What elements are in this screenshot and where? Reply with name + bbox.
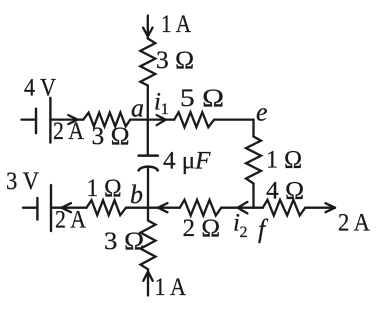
- battery V1 long plate: [49, 98, 51, 143]
- wire 2ohm to junction f with i2 arrow left: [221, 207, 253, 209]
- resistor R 1ohm right (vertical): [246, 137, 261, 184]
- wire 1ohm right down to bottom node: [252, 184, 254, 208]
- svg-text:1 Ω: 1 Ω: [87, 175, 122, 202]
- capacitor C 4uF bottom curved plate: [139, 167, 158, 171]
- svg-text:1: 1: [161, 101, 169, 118]
- svg-text:4 Ω: 4 Ω: [266, 178, 304, 205]
- wire main vertical from top resistor through node a to capacitor: [147, 86, 149, 155]
- svg-text:2 Ω: 2 Ω: [183, 215, 221, 242]
- svg-text:5 Ω: 5 Ω: [180, 85, 224, 112]
- wire 5ohm to corner e and down: [214, 120, 253, 137]
- svg-text:3 Ω: 3 Ω: [92, 123, 130, 150]
- resistor R 4ohm (horizontal): [263, 200, 305, 216]
- svg-text:e: e: [256, 98, 268, 127]
- svg-text:2 A: 2 A: [53, 118, 84, 145]
- wire from capacitor through node b down to bottom resistor: [147, 169, 149, 221]
- battery V2 long plate: [50, 185, 52, 231]
- svg-text:4 μF: 4 μF: [163, 148, 211, 175]
- wire top lead with 1 A arrow into top resistor: [147, 16, 149, 39]
- wire 4ohm out right with 2 A arrow: [305, 207, 335, 209]
- wire battery V1 to left resistor with 2 A arrow: [50, 118, 83, 120]
- battery V1 short plate: [35, 109, 37, 134]
- svg-text:3 Ω: 3 Ω: [104, 228, 144, 255]
- svg-text:2 A: 2 A: [55, 207, 86, 234]
- svg-text:1 A: 1 A: [161, 11, 191, 38]
- resistor R 5ohm (horizontal): [174, 112, 214, 127]
- battery V2 3V stub: [23, 207, 37, 209]
- capacitor C 4uF top plate: [139, 154, 158, 157]
- svg-text:3 Ω: 3 Ω: [156, 47, 194, 74]
- svg-text:1 Ω: 1 Ω: [266, 147, 302, 174]
- svg-text:2: 2: [240, 224, 248, 241]
- wire battery V2 to 1ohm with 2 A arrow left: [51, 207, 87, 209]
- resistor R 3ohm top (vertical): [140, 39, 155, 86]
- wire node a segment with i1 arrow: [130, 118, 174, 120]
- svg-text:2 A: 2 A: [338, 210, 370, 237]
- svg-text:b: b: [130, 180, 143, 209]
- resistor R 3ohm bottom (vertical): [141, 221, 156, 270]
- wire bottom lead with 1 A arrow up: [147, 269, 149, 295]
- svg-text:4 V: 4 V: [24, 75, 56, 102]
- resistor R 1ohm left (horizontal): [87, 200, 127, 215]
- battery V1 4V stub: [22, 118, 37, 120]
- wire node b segment with left arrow: [126, 207, 180, 209]
- resistor R 2ohm (horizontal): [180, 200, 222, 216]
- svg-text:3 V: 3 V: [6, 168, 39, 195]
- wire junction to 4ohm: [254, 207, 263, 209]
- resistor R 3ohm left (horizontal): [83, 113, 130, 127]
- svg-text:1 A: 1 A: [155, 274, 187, 301]
- battery V2 short plate: [36, 198, 38, 220]
- svg-text:f: f: [258, 215, 269, 244]
- svg-text:a: a: [131, 94, 144, 123]
